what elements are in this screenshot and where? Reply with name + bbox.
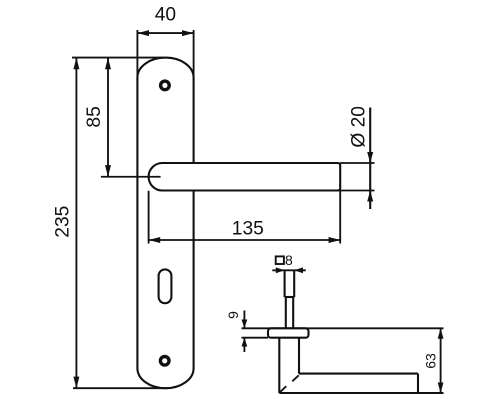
spindle lower section <box>285 297 287 328</box>
top extension line (plate top) <box>72 57 163 59</box>
dimension 63 arrows <box>438 328 444 393</box>
backplate <box>137 58 193 389</box>
handle neck (side view) <box>278 338 280 393</box>
dimension 85 arrows <box>105 58 111 177</box>
bottom extension line (plate bottom) <box>73 387 168 389</box>
svg-text:135: 135 <box>232 219 264 240</box>
dimension 235 arrows <box>73 58 79 389</box>
dimension 135 arrows <box>149 237 341 243</box>
spindle step <box>285 296 295 298</box>
diameter 20 arrows <box>367 152 373 202</box>
diameter 20 dimension line upper <box>369 108 371 210</box>
svg-text:Ø 20: Ø 20 <box>348 106 369 148</box>
dimension 9 lower extension line <box>242 337 269 339</box>
dimension 135 line <box>149 239 341 241</box>
diameter 20 extension lines <box>340 163 374 191</box>
dimension 9 lower line <box>243 338 245 352</box>
svg-text:85: 85 <box>84 106 105 127</box>
svg-text:40: 40 <box>155 4 176 25</box>
rose (side view) <box>268 328 309 337</box>
keyhole <box>159 269 172 303</box>
dimension 85 line <box>107 58 109 177</box>
square 8 symbol <box>276 256 284 264</box>
svg-text:63: 63 <box>422 353 438 369</box>
dimension 85 lower extension line (lever centerline) <box>101 176 161 178</box>
dimension 9 upper line <box>243 311 245 329</box>
top screw <box>161 81 170 90</box>
bend tangent line lower <box>280 386 287 392</box>
svg-text:9: 9 <box>225 311 241 319</box>
svg-text:235: 235 <box>52 206 73 238</box>
bend tangent line upper <box>292 375 298 381</box>
dimension 40 extension lines <box>137 30 193 80</box>
dimension 40 line <box>137 32 193 34</box>
dimension 9 arrows <box>242 320 248 347</box>
bottom screw <box>160 357 169 366</box>
dimension 40 arrows <box>137 30 193 36</box>
rose top line with 63 extension line <box>242 327 444 329</box>
grip right edge <box>417 374 419 393</box>
dimension 135 extension lines <box>149 191 341 244</box>
dimension 8 line with arrows <box>272 269 306 271</box>
grip bottom edge with 63 extension line <box>279 392 443 394</box>
lever handle (front view) <box>149 163 341 191</box>
spindle upper section <box>284 270 286 297</box>
dimension 235 line <box>75 58 77 389</box>
svg-text:8: 8 <box>285 252 293 268</box>
grip top edge <box>299 373 418 375</box>
dimension 63 line <box>440 328 442 393</box>
